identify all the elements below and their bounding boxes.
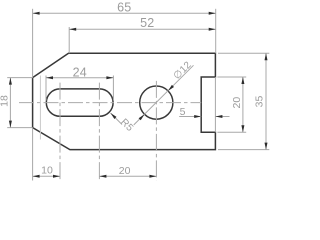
arrow 24 left	[46, 76, 53, 79]
extension line right edge through notch	[214, 77, 216, 132]
extension 18 bottom tick	[7, 127, 32, 129]
svg-text:52: 52	[140, 16, 154, 30]
extension 24 right	[112, 76, 114, 101]
R5 leader	[111, 113, 123, 125]
arrow 20 bottom left	[99, 175, 106, 178]
dim line 5 left tail	[179, 116, 201, 118]
arrow 35 bottom	[265, 143, 268, 150]
centerline slot right arc	[98, 83, 100, 181]
dim line 35	[265, 53, 267, 149]
extension line left edge down	[32, 128, 34, 181]
arrow 65 right	[209, 12, 216, 15]
arrow 20 right top	[241, 77, 244, 84]
svg-text:65: 65	[117, 1, 131, 15]
dia 12 dimension diagonal	[134, 65, 194, 125]
svg-text:5: 5	[180, 106, 186, 118]
extension notch top right	[217, 76, 246, 78]
arrow 5 right	[215, 115, 222, 118]
dim line 20 right	[242, 77, 244, 132]
extension bottom edge right	[218, 149, 269, 151]
arrow 52 right	[209, 28, 216, 31]
arrow 35 top	[265, 53, 268, 60]
circle hole d12	[140, 86, 173, 119]
horizontal centerline	[19, 102, 201, 104]
dim line 5 right tail	[215, 116, 229, 118]
arrow 65 left	[33, 12, 40, 15]
arrow 20 bottom right	[149, 175, 156, 178]
arrow dia12 lower	[139, 114, 145, 120]
svg-text:24: 24	[73, 66, 87, 80]
centerline circle vertical	[155, 81, 157, 181]
svg-text:18: 18	[0, 95, 11, 107]
plate outline	[33, 53, 216, 149]
arrow dia12 upper	[168, 85, 174, 91]
dim line 18	[9, 78, 11, 128]
arrow 18 bottom	[9, 121, 12, 128]
arrow 18 top	[9, 78, 12, 85]
arrow 24 right	[106, 76, 113, 79]
extension notch bottom right	[217, 131, 246, 133]
arrow 20 right bottom	[241, 125, 244, 132]
extension 24 left	[45, 76, 47, 101]
dim line 52	[69, 28, 216, 30]
arrow 10 right	[53, 175, 60, 178]
extension line right edge up	[215, 9, 217, 54]
arrow 52 left	[69, 28, 76, 31]
extension line 52 left	[68, 27, 70, 53]
centerline slot left arc	[59, 83, 61, 181]
arrow 10 left	[33, 175, 40, 178]
extension line left edge up	[32, 9, 34, 78]
extension top edge right	[218, 52, 269, 54]
dim line 65	[33, 12, 216, 14]
construction line	[39, 76, 41, 140]
dim line 20 bottom	[99, 175, 156, 177]
extension 18 top tick	[7, 77, 32, 79]
svg-text:20: 20	[231, 97, 243, 109]
arrow 5 left	[194, 115, 201, 118]
dim line 24	[46, 77, 113, 79]
slot (obround) in plate	[46, 89, 113, 116]
arrow R5	[111, 113, 117, 119]
dim line 10	[33, 175, 60, 177]
svg-text:20: 20	[119, 165, 131, 177]
svg-text:10: 10	[41, 165, 53, 177]
svg-text:35: 35	[253, 96, 265, 108]
